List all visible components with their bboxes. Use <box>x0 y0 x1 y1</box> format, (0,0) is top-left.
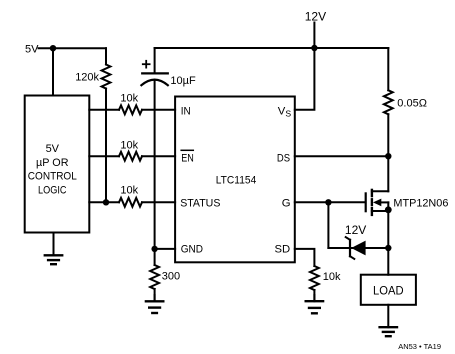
svg-text:10k: 10k <box>120 185 138 197</box>
wire SD row <box>295 249 315 266</box>
resistor 0.05 ohm <box>384 90 393 114</box>
wire GND to 300 <box>154 249 156 265</box>
wire DS row <box>295 155 389 157</box>
svg-text:12V: 12V <box>305 9 326 23</box>
node 120k to STATUS junction <box>103 199 109 205</box>
resistor 120k <box>102 65 111 89</box>
svg-text:GND: GND <box>181 243 203 255</box>
svg-text:5V: 5V <box>46 143 60 155</box>
svg-text:SD: SD <box>275 243 291 255</box>
node zener source junction <box>385 245 391 251</box>
svg-text:120k: 120k <box>75 72 99 84</box>
resistor 10k IN <box>119 105 142 114</box>
capacitor C1 10uF <box>154 48 156 72</box>
wire STATUS row right <box>142 201 175 203</box>
svg-text:MTP12N06: MTP12N06 <box>393 197 448 209</box>
wire VS pin to rail <box>295 48 315 110</box>
wire capacitor negative lead down to GND row <box>154 81 156 249</box>
wire 12V stem <box>313 23 315 49</box>
svg-text:IN: IN <box>181 105 191 117</box>
wire rail to sense resistor <box>387 48 389 90</box>
IC U1 LTC1154 <box>175 97 295 263</box>
ground logic box <box>53 233 55 256</box>
svg-text:CONTROL: CONTROL <box>28 171 77 183</box>
svg-text:0.05Ω: 0.05Ω <box>397 98 427 110</box>
svg-text:LTC1154: LTC1154 <box>216 174 257 186</box>
svg-text:10k: 10k <box>120 92 138 104</box>
svg-text:5V: 5V <box>25 44 39 56</box>
resistor 300 <box>150 265 159 289</box>
svg-text:EN: EN <box>181 152 194 164</box>
svg-text:10µF: 10µF <box>170 75 196 87</box>
wire STATUS row left <box>89 201 119 203</box>
svg-text:LOAD: LOAD <box>373 284 404 298</box>
ground 300 <box>154 295 156 301</box>
wire 5V to logic box <box>52 48 54 95</box>
wire 12V top rail <box>155 47 389 49</box>
wire DS node to drain <box>387 156 389 191</box>
wire 120k bottom lead to STATUS row <box>105 89 107 203</box>
node DS junction <box>385 153 391 159</box>
node source junction <box>385 206 392 213</box>
resistor 10k SD <box>310 266 319 290</box>
wire zener row <box>328 247 388 249</box>
ground load <box>387 305 389 327</box>
wire EN row right <box>142 155 175 157</box>
node 5V junction <box>50 45 56 51</box>
wire gate to zener <box>327 202 329 248</box>
wire G row <box>295 201 365 203</box>
load box <box>361 275 416 305</box>
resistor 10k EN <box>119 152 142 161</box>
svg-text:10k: 10k <box>120 139 138 151</box>
wire 5V lead <box>39 47 107 49</box>
svg-text:10k: 10k <box>323 271 341 283</box>
node 12V rail junction <box>311 45 317 51</box>
wire 10k to ground <box>313 290 315 301</box>
node GND junction <box>151 246 157 252</box>
wire IN row right <box>142 109 175 111</box>
wire 300 to ground <box>154 289 156 301</box>
svg-text:LOGIC: LOGIC <box>38 184 67 196</box>
svg-text:12V: 12V <box>345 223 366 237</box>
transistor Q1 MTP12N06 <box>366 190 389 215</box>
wire sense resistor to DS node <box>387 114 389 156</box>
svg-text:µP OR: µP OR <box>36 157 69 169</box>
svg-text:300: 300 <box>162 270 180 282</box>
svg-text:AN53 • TA19: AN53 • TA19 <box>398 342 441 351</box>
wire IN row left <box>89 109 119 111</box>
svg-text:G: G <box>282 197 291 209</box>
zener diode D1 12V <box>346 237 366 259</box>
svg-text:DS: DS <box>277 152 291 164</box>
wire EN row left <box>89 155 119 157</box>
wire GND pin row <box>155 248 176 250</box>
ground 10k SD <box>313 295 315 301</box>
control logic box U2 <box>25 96 90 233</box>
node gate junction <box>325 199 331 205</box>
wire 120k top lead <box>105 48 107 64</box>
wire source to load <box>387 210 389 275</box>
svg-text:STATUS: STATUS <box>180 197 221 209</box>
resistor 10k STATUS <box>119 198 142 207</box>
